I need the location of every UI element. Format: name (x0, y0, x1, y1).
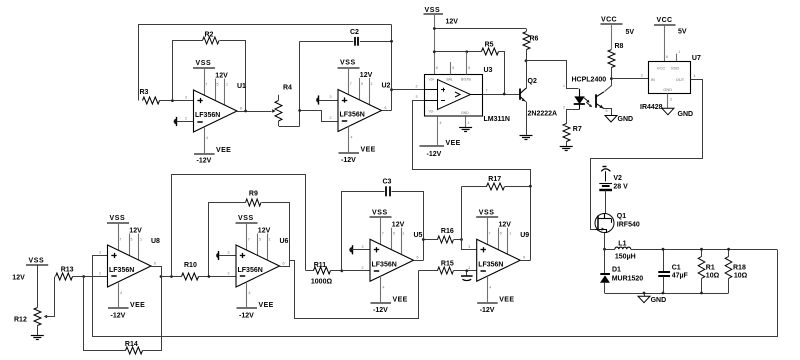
U7 ground pin (662, 94, 693, 119)
svg-text:6: 6 (417, 256, 419, 260)
svg-text:7: 7 (248, 237, 250, 241)
svg-text:3: 3 (185, 96, 187, 100)
svg-text:12V: 12V (12, 274, 25, 281)
svg-text:C2: C2 (350, 29, 359, 36)
svg-text:3: 3 (670, 98, 672, 102)
svg-text:HCPL2400: HCPL2400 (572, 77, 607, 84)
wire: U8 output (151, 266, 161, 268)
svg-text:GND: GND (618, 116, 634, 123)
svg-text:VSS: VSS (196, 60, 212, 67)
resistor R18 (725, 249, 747, 293)
node: junction R11/C3/U5- (340, 269, 343, 272)
opto LED (563, 84, 585, 109)
potentiometer R12 (14, 308, 41, 336)
svg-text:V2: V2 (613, 175, 622, 182)
svg-text:47µF: 47µF (672, 273, 689, 280)
svg-text:IN: IN (651, 77, 655, 82)
svg-text:MUR1520: MUR1520 (612, 275, 644, 282)
svg-text:4: 4 (383, 285, 385, 289)
svg-text:GND: GND (678, 111, 694, 118)
svg-text:1: 1 (678, 50, 680, 54)
svg-text:3: 3 (362, 245, 364, 249)
node: junction R2/R3/U1+ (171, 99, 174, 102)
svg-text:R18: R18 (733, 265, 746, 272)
svg-text:3: 3 (468, 245, 470, 249)
svg-text:10Ω: 10Ω (734, 273, 748, 280)
optocoupler HCPL2400 label (572, 77, 607, 84)
node: junction at pin8 row (433, 50, 436, 53)
svg-text:LF356N: LF356N (340, 112, 365, 119)
potentiometer R4 (272, 84, 292, 126)
node: junction C3/R16/U5 out (422, 238, 425, 241)
svg-text:R6: R6 (530, 36, 539, 43)
U3 inner triangle (424, 80, 483, 110)
svg-text:2: 2 (362, 266, 364, 270)
ground (triangle) at output rail (638, 292, 666, 304)
svg-text:12V: 12V (360, 72, 373, 79)
wire: output feedback loop to U8 + (93, 250, 778, 337)
node: junction 12V rail at VSS (433, 27, 436, 30)
wire: U7 OUT to Q1 gate (591, 74, 703, 230)
svg-text:-12V: -12V (373, 307, 388, 314)
ground at R15/U9- node (461, 269, 473, 280)
svg-text:5: 5 (361, 82, 363, 86)
opto phototransistor (596, 79, 612, 116)
svg-text:5: 5 (217, 82, 219, 86)
svg-text:IRF540: IRF540 (617, 222, 640, 229)
svg-text:VEE: VEE (446, 140, 461, 147)
svg-text:LF356N: LF356N (478, 261, 503, 268)
svg-text:6: 6 (468, 66, 470, 70)
resistor R1 (698, 249, 719, 293)
svg-text:6: 6 (385, 106, 387, 110)
svg-text:1: 1 (467, 121, 469, 125)
svg-text:2: 2 (468, 266, 470, 270)
node: junction pin6/12V row (465, 50, 468, 53)
wire: U1 output to R4 wiper (237, 111, 272, 113)
terminal symbol at U1 inverting input (174, 117, 194, 126)
svg-text:VSS: VSS (479, 209, 495, 216)
svg-text:R9: R9 (249, 190, 258, 197)
diode D1 MUR1520 (600, 249, 643, 293)
resistor R8 (608, 24, 624, 79)
wire: 12V row to R5 (434, 51, 481, 53)
svg-text:12V: 12V (215, 72, 228, 79)
wire: link U8 out to R11 (top path) (172, 175, 306, 277)
node: junction C2 right (390, 40, 393, 43)
svg-text:LF356N: LF356N (195, 112, 220, 119)
capacitor C2 (300, 29, 392, 46)
svg-text:5V: 5V (626, 29, 635, 36)
svg-text:1000Ω: 1000Ω (311, 278, 333, 285)
svg-text:VEE: VEE (499, 296, 514, 303)
svg-text:10Ω: 10Ω (706, 273, 720, 280)
svg-text:Q2: Q2 (528, 78, 537, 85)
op-amp U2 (330, 60, 391, 165)
ground below R7 (560, 147, 573, 151)
svg-text:L1: L1 (618, 240, 626, 247)
svg-text:12V: 12V (446, 19, 459, 26)
node: junction U3+ branch (390, 88, 393, 91)
node: junction R17 right/U3 feedback (529, 185, 532, 188)
svg-text:5: 5 (606, 109, 608, 113)
svg-text:2: 2 (228, 272, 230, 276)
U3 labels (484, 67, 510, 123)
resistor R10 (161, 262, 236, 280)
svg-text:U7: U7 (692, 55, 701, 62)
svg-text:-12V: -12V (239, 313, 254, 320)
svg-text:4: 4 (351, 136, 353, 140)
svg-text:4: 4 (120, 291, 122, 295)
node: junction riser/U2- branch (298, 109, 301, 112)
svg-text:R10: R10 (184, 262, 197, 269)
svg-text:C1: C1 (672, 265, 681, 272)
svg-text:LM311N: LM311N (484, 116, 510, 123)
svg-text:6: 6 (154, 261, 156, 265)
U3 top pins 5 and 6 (436, 52, 471, 75)
wire: R3 right to U1 non-inverting input (159, 100, 194, 102)
svg-text:R13: R13 (61, 267, 74, 274)
svg-text:1: 1 (509, 232, 511, 236)
node: junction R1 bottom (700, 292, 703, 295)
transistor Q2 2N2222A (520, 61, 557, 135)
node: junction C1 top (662, 248, 665, 251)
svg-text:R14: R14 (125, 341, 138, 348)
power VSS for U3 (424, 7, 459, 26)
svg-text:VEE: VEE (130, 302, 145, 309)
op-amp U9 (468, 209, 529, 314)
svg-text:150µH: 150µH (615, 254, 636, 261)
svg-text:2: 2 (330, 116, 332, 120)
capacitor C3 around U5 (342, 178, 424, 270)
svg-text:GND: GND (663, 87, 672, 92)
node: junction R18 top (727, 248, 730, 251)
svg-text:VSS: VSS (372, 209, 388, 216)
svg-text:VEE: VEE (393, 296, 408, 303)
ground (triangle) at opto emitter (605, 116, 633, 123)
wire: output bottom rail (605, 293, 729, 295)
svg-text:-12V: -12V (341, 157, 356, 164)
terminal symbol at U5 non-inverting input (349, 245, 370, 254)
svg-text:2N2222A: 2N2222A (528, 110, 558, 117)
svg-text:1: 1 (563, 84, 565, 88)
wire: U6 output jog to lower path (280, 261, 290, 267)
svg-text:5: 5 (452, 66, 454, 70)
node: junction R1 top (700, 248, 703, 251)
node: junction C1 bottom (662, 292, 665, 295)
ground below R12 (31, 336, 44, 340)
power VSS reference (12, 258, 48, 282)
svg-text:GND: GND (461, 111, 469, 115)
wire: VSS down through pin 8 of U3 (434, 14, 436, 75)
svg-text:R8: R8 (615, 43, 624, 50)
svg-text:2: 2 (185, 117, 187, 121)
wire: VSS to R12 (37, 265, 39, 308)
svg-text:R16: R16 (441, 228, 454, 235)
svg-text:2: 2 (99, 272, 101, 276)
svg-text:U8: U8 (151, 238, 160, 245)
svg-text:4: 4 (694, 74, 696, 78)
svg-text:5: 5 (393, 232, 395, 236)
node: junction R6/Q2 collector/opto (525, 59, 528, 62)
svg-text:3: 3 (330, 95, 332, 99)
svg-text:VSS: VSS (110, 215, 126, 222)
wire: vertical riser to C2 row (299, 41, 301, 126)
svg-text:R5: R5 (485, 41, 494, 48)
resistor R11 (306, 262, 342, 286)
svg-text:12V: 12V (258, 227, 271, 234)
power VCC for U7 (654, 17, 687, 36)
svg-text:1: 1 (140, 237, 142, 241)
wire: riser x391 (U2 out up to top wire/C2) (391, 25, 393, 111)
power VCC for R8 (601, 17, 635, 37)
ground below Q2 (520, 136, 533, 140)
wire: to U7 IN (611, 74, 648, 79)
svg-text:U2: U2 (382, 82, 391, 89)
svg-text:R4: R4 (283, 84, 292, 91)
terminal symbol at U2 non-inverting input (316, 95, 338, 104)
svg-text:7: 7 (486, 89, 488, 93)
svg-text:VSS: VSS (340, 60, 356, 67)
svg-text:VSS: VSS (425, 7, 441, 14)
svg-text:C3: C3 (383, 178, 392, 185)
wire: feedback from U9 to U3 inverting input (413, 95, 531, 260)
svg-text:6: 6 (283, 261, 285, 265)
svg-text:28 V: 28 V (613, 183, 628, 190)
svg-text:4: 4 (249, 291, 251, 295)
svg-text:R11: R11 (314, 262, 327, 269)
svg-text:2: 2 (563, 106, 565, 110)
svg-text:4: 4 (206, 136, 208, 140)
op-amp U5 (362, 209, 423, 314)
node: junction R5 on output (503, 93, 506, 96)
svg-text:V3-: V3- (429, 110, 434, 114)
node: junction R8/opto collector/U7 IN (610, 77, 613, 80)
svg-text:7: 7 (205, 82, 207, 86)
R12 wiper arm (44, 277, 55, 319)
U7 labels (640, 55, 701, 111)
svg-text:R7: R7 (573, 126, 582, 133)
svg-text:B/STB: B/STB (461, 77, 472, 81)
node: junction Q1 source/D1 (603, 248, 606, 251)
svg-text:BAL: BAL (447, 77, 454, 81)
svg-text:VEE: VEE (361, 147, 376, 154)
resistor R17 feedback around U9 (462, 176, 531, 190)
svg-text:VEE: VEE (216, 147, 231, 154)
resistor R6 (523, 29, 539, 61)
svg-text:12V: 12V (129, 227, 142, 234)
svg-text:VDD: VDD (671, 66, 680, 71)
svg-text:LF356N: LF356N (372, 261, 397, 268)
capacitor C1 (658, 249, 688, 293)
driver U7 IR4428 box (649, 62, 691, 94)
svg-text:-12V: -12V (197, 158, 212, 165)
wire: LED cathode to R7 (563, 106, 580, 124)
svg-text:3: 3 (228, 251, 230, 255)
svg-text:D1: D1 (612, 266, 621, 273)
svg-text:2: 2 (416, 85, 418, 89)
node: junction R13/R14/U8- (82, 275, 85, 278)
wire: U2 output feedback loop (left vertical and top horizontal) (139, 25, 392, 101)
svg-text:7: 7 (489, 232, 491, 236)
svg-text:U3: U3 (484, 67, 493, 74)
svg-text:6: 6 (240, 106, 242, 110)
U7 pin 1 stub (677, 50, 681, 61)
svg-text:7: 7 (350, 82, 352, 86)
svg-text:5V: 5V (678, 29, 687, 36)
svg-text:R12: R12 (14, 316, 27, 323)
svg-text:5: 5 (500, 232, 502, 236)
svg-text:2: 2 (641, 74, 643, 78)
svg-text:-12V: -12V (111, 313, 126, 320)
terminal symbol at U6 non-inverting input (216, 251, 236, 260)
svg-text:VCC: VCC (601, 17, 617, 24)
transistor Q1 IRF540 (595, 213, 640, 233)
svg-text:-12V: -12V (427, 151, 442, 158)
svg-text:7: 7 (119, 237, 121, 241)
svg-text:U5: U5 (414, 232, 423, 239)
resistor R15 (419, 261, 477, 274)
wire: riser to U2 inverting input (jog) (300, 111, 339, 122)
svg-text:6: 6 (666, 55, 668, 59)
svg-text:U1: U1 (237, 83, 246, 90)
svg-text:1: 1 (226, 82, 228, 86)
svg-text:1: 1 (371, 82, 373, 86)
resistor R5 pull-up (482, 41, 505, 94)
svg-text:U6: U6 (280, 238, 289, 245)
svg-text:IR4428: IR4428 (640, 104, 663, 111)
wire: Q1 source to output rail (604, 233, 606, 250)
svg-text:5: 5 (131, 237, 133, 241)
svg-text:LF356N: LF356N (109, 267, 134, 274)
node: junction U8 out row (160, 275, 163, 278)
svg-text:VCC: VCC (657, 17, 673, 24)
U3 inner pin names (429, 77, 472, 115)
wire: U9 output (520, 260, 530, 262)
svg-text:7: 7 (382, 232, 384, 236)
wire: U8 out down to R10 row (161, 266, 163, 277)
svg-text:V3+: V3+ (429, 77, 435, 81)
svg-text:U9: U9 (520, 232, 529, 239)
svg-text:4: 4 (489, 285, 491, 289)
svg-text:VSS: VSS (29, 258, 45, 265)
svg-text:LF356N: LF356N (238, 267, 263, 274)
svg-text:OUT: OUT (676, 77, 685, 82)
svg-text:R17: R17 (488, 176, 501, 183)
svg-text:6: 6 (523, 256, 525, 260)
svg-text:12V: 12V (392, 222, 405, 229)
resistor R2 feedback loop around U1 (173, 31, 246, 111)
wire: to U3 non-inverting input (392, 85, 425, 90)
wire: R17 left leg down to U9 + (462, 187, 477, 250)
svg-text:5: 5 (259, 237, 261, 241)
inductor L1 rail (605, 240, 778, 260)
node: junction link to R11 (170, 275, 173, 278)
resistor R3 (140, 89, 160, 104)
svg-text:1: 1 (269, 237, 271, 241)
svg-text:-12V: -12V (480, 307, 495, 314)
wire: 12V rail to R6 (434, 28, 526, 30)
svg-text:VEE: VEE (259, 302, 274, 309)
resistor R16 (423, 228, 461, 243)
svg-text:VCC: VCC (657, 66, 666, 71)
U3 VEE pin 4 (420, 116, 461, 158)
svg-text:8: 8 (436, 66, 438, 70)
svg-text:Q1: Q1 (617, 213, 626, 220)
wire: U2 output to riser x391 (382, 110, 392, 112)
svg-text:R1: R1 (706, 265, 715, 272)
svg-text:VSS: VSS (238, 215, 254, 222)
resistor R14 feedback around U8 (84, 267, 162, 355)
comparator U3 LM311N box (425, 75, 483, 117)
svg-text:3: 3 (99, 251, 101, 255)
svg-text:1: 1 (403, 232, 405, 236)
wire: VCC to U7 pin 6 (665, 25, 669, 61)
op-amp U8 (99, 215, 160, 320)
svg-text:R3: R3 (140, 89, 149, 96)
op-amp U1 (185, 60, 246, 165)
node: junction R16/R17 leg (460, 238, 463, 241)
resistor R9 feedback around U6 (209, 190, 290, 276)
wire: U5 inverting input (342, 270, 370, 272)
opto light arrows (584, 98, 592, 107)
svg-text:GND: GND (651, 297, 667, 304)
op-amp U6 (228, 215, 289, 320)
svg-text:R2: R2 (205, 31, 214, 38)
wire: R6 junction to optocoupler LED anode (527, 61, 579, 89)
wire: R4 bottom to vertical riser (279, 126, 300, 128)
battery V2 28V (599, 167, 628, 214)
svg-text:R15: R15 (441, 261, 454, 268)
svg-text:12V: 12V (499, 222, 512, 229)
wire: U5 output (414, 260, 424, 262)
resistor R7 (563, 124, 582, 147)
wire: U3 output to Q2 base (483, 89, 520, 95)
U3 ground pin 1 (459, 116, 472, 131)
node: junction R9 left leg (208, 275, 211, 278)
wire: U6 out to R15 (bottom path) (290, 261, 419, 319)
svg-text:3: 3 (416, 95, 418, 99)
node: junction R2 right leg on U1 output (244, 110, 247, 113)
resistor R13 (56, 267, 108, 280)
svg-text:4: 4 (440, 121, 442, 125)
